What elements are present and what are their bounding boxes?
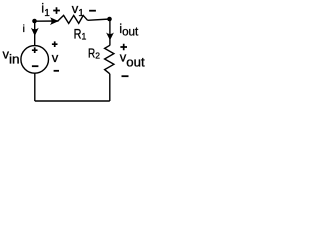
- label plus of v1: [53, 7, 60, 14]
- current arrow i (down): [31, 28, 39, 36]
- source minus sign: [32, 65, 39, 67]
- label minus of v: [54, 70, 59, 72]
- current arrow i1 (right): [50, 17, 59, 25]
- source plus sign: [32, 47, 38, 53]
- current arrow iout (down): [106, 33, 114, 41]
- wire node A down to source: [34, 21, 36, 46]
- label plus of v: [52, 41, 58, 47]
- label minus of vout: [122, 75, 129, 77]
- wire top-left (node A to R1): [35, 20, 59, 22]
- svg-text:i1: i1: [41, 1, 50, 19]
- wire bottom: [35, 100, 110, 102]
- svg-text:i: i: [23, 24, 25, 35]
- svg-text:R1: R1: [74, 26, 87, 41]
- resistor R2: [105, 45, 114, 74]
- wire R1 to node B: [88, 19, 110, 20]
- voltage source v_in circle: [21, 46, 49, 74]
- svg-text:vout: vout: [120, 50, 145, 70]
- node A: [32, 19, 37, 24]
- node B: [107, 17, 112, 22]
- svg-text:iout: iout: [119, 21, 139, 39]
- label plus of vout: [120, 44, 127, 51]
- wire node B down to R2: [109, 19, 111, 46]
- label minus of v1: [89, 10, 96, 12]
- svg-text:v: v: [52, 50, 59, 65]
- svg-text:R2: R2: [88, 46, 100, 61]
- resistor R1: [58, 15, 88, 23]
- wire bottom-right up to R2: [109, 74, 111, 101]
- wire source bottom down: [34, 73, 36, 101]
- svg-text:vin: vin: [3, 47, 20, 67]
